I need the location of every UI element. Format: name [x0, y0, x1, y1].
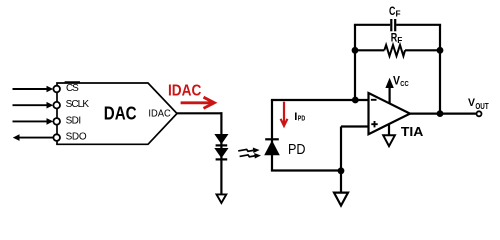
- op-amp plus sign: [371, 121, 377, 127]
- wire DAC output to LED branch: [177, 112, 223, 114]
- svg-text:OUT: OUT: [475, 102, 488, 111]
- feedback right vertical wire: [439, 25, 441, 114]
- capacitor CF plates: [391, 19, 395, 31]
- resistor RF zigzag: [384, 45, 405, 56]
- pin circle SDI: [53, 118, 60, 125]
- pin arrow CS (input): [13, 86, 54, 93]
- svg-text:V: V: [468, 97, 475, 109]
- wire PD loop top (to op-amp inverting input): [271, 99, 369, 101]
- resistor RF wires: [355, 49, 384, 51]
- IDAC red current arrow: [181, 97, 215, 108]
- optical arrow lower: [240, 153, 261, 159]
- VCC arrow: [385, 78, 393, 104]
- svg-text:PD: PD: [298, 114, 305, 123]
- pin circle CS: [53, 86, 60, 93]
- IPD red current arrow: [281, 102, 288, 126]
- feedback left vertical wire: [354, 25, 356, 100]
- svg-text:IDAC: IDAC: [168, 82, 201, 99]
- junction RF right: [437, 47, 444, 54]
- op-amp TIA: [369, 93, 411, 134]
- junction inverting input: [352, 97, 359, 104]
- op-amp minus sign: [371, 99, 377, 101]
- ground (LED branch): [217, 194, 227, 203]
- svg-text:TIA: TIA: [401, 124, 424, 139]
- CS overline: [65, 81, 80, 83]
- ground (TIA): [383, 135, 395, 146]
- svg-text:V: V: [393, 76, 400, 88]
- LED D2: [214, 148, 228, 159]
- capacitor CF wires: [354, 24, 390, 26]
- output wire: [410, 112, 476, 114]
- wire + input stub: [341, 125, 369, 127]
- svg-text:SDO: SDO: [66, 132, 87, 143]
- photodiode PD: [264, 139, 280, 155]
- svg-text:IDAC: IDAC: [148, 108, 171, 119]
- wire + input riser: [340, 127, 342, 172]
- wire PD loop left vertical: [271, 100, 273, 171]
- LED D1: [214, 134, 228, 145]
- svg-text:F: F: [397, 35, 402, 45]
- ground (PD / + input): [334, 193, 348, 206]
- wire LED branch vertical: [220, 112, 222, 195]
- pin arrow SCLK (input): [13, 102, 54, 109]
- pin arrow SDO (output): [13, 134, 53, 141]
- svg-text:C: C: [389, 6, 395, 18]
- pin arrow SDI (input): [13, 118, 54, 125]
- svg-text:CS: CS: [66, 83, 79, 94]
- svg-text:SCLK: SCLK: [66, 99, 90, 110]
- svg-text:PD: PD: [288, 142, 306, 158]
- pin circle SCLK: [53, 102, 60, 109]
- optical arrow upper: [238, 148, 259, 154]
- pin circle SDO: [53, 134, 60, 141]
- junction output: [437, 110, 444, 117]
- junction RF left: [352, 47, 359, 54]
- svg-text:SDI: SDI: [66, 115, 82, 126]
- svg-text:F: F: [396, 9, 401, 19]
- VOUT terminal: [477, 111, 482, 116]
- TIA ground stem: [388, 124, 390, 136]
- DAC block outline: [57, 83, 177, 144]
- junction bottom wire / + riser: [338, 167, 345, 174]
- svg-text:DAC: DAC: [104, 103, 137, 123]
- svg-text:CC: CC: [400, 79, 409, 88]
- wire ground stem (mid): [340, 171, 342, 193]
- wire PD loop bottom: [271, 169, 341, 171]
